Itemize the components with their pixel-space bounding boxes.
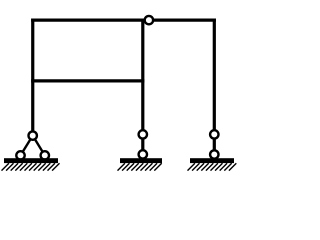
wire: top chord (horizontal member) (31, 19, 216, 22)
middle support: lower roller circle (139, 150, 147, 158)
left support: roller legs (21, 136, 45, 156)
wire: left column (vertical member) (31, 19, 34, 136)
left support: left roller (16, 151, 24, 159)
right support: lower roller circle (210, 150, 218, 158)
middle support: upper hinge circle (139, 130, 147, 138)
right support: ground hatching (188, 163, 237, 170)
wire: middle column (vertical member through hinge to support) (141, 20, 144, 154)
wire: right column (vertical member) (213, 19, 216, 155)
right support: ground bar (190, 158, 234, 163)
left support: right roller (41, 151, 49, 159)
left support: ground bar (4, 158, 58, 163)
hinge circle at top chord (145, 16, 153, 24)
left support: pin circle (29, 131, 37, 139)
wire: middle beam (horizontal member) (31, 79, 144, 82)
left support: ground hatching (2, 163, 60, 170)
middle support: ground bar (120, 158, 162, 163)
middle support: ground hatching (118, 163, 162, 170)
right support: upper hinge circle (210, 130, 218, 138)
